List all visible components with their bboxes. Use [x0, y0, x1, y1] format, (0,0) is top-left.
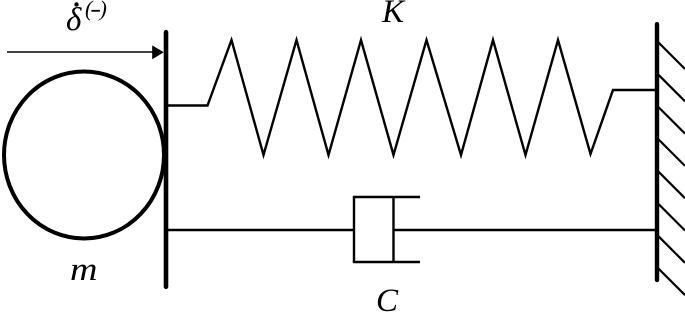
wall hatch 7	[658, 236, 685, 263]
damper rod right	[394, 229, 656, 231]
left bar (mass contact plate)	[164, 32, 169, 287]
right wall bar	[655, 24, 659, 280]
delta overdot	[74, 2, 78, 6]
wall hatch 5	[658, 171, 685, 198]
mass m (circle)	[4, 72, 164, 239]
damper cylinder top	[353, 196, 420, 198]
damper rod left	[168, 229, 354, 231]
svg-text:δ: δ	[66, 2, 82, 38]
velocity arrow shaft	[7, 51, 154, 53]
velocity arrow head	[152, 45, 164, 59]
damper cylinder left wall	[353, 197, 355, 262]
wall hatch 4	[658, 139, 685, 166]
wall hatch 8	[658, 268, 685, 295]
svg-text:m: m	[70, 252, 98, 288]
damper piston	[392, 197, 394, 262]
svg-text:): )	[98, 0, 107, 21]
wall hatch 6	[658, 204, 685, 231]
svg-text:K: K	[381, 0, 406, 30]
wall hatch 3	[658, 107, 685, 134]
svg-text:C: C	[376, 283, 399, 313]
superscript minus	[91, 10, 100, 12]
wall hatch 1	[658, 42, 685, 69]
wall hatch 2	[658, 74, 685, 101]
spring K	[168, 40, 655, 155]
damper cylinder bottom	[353, 261, 420, 263]
